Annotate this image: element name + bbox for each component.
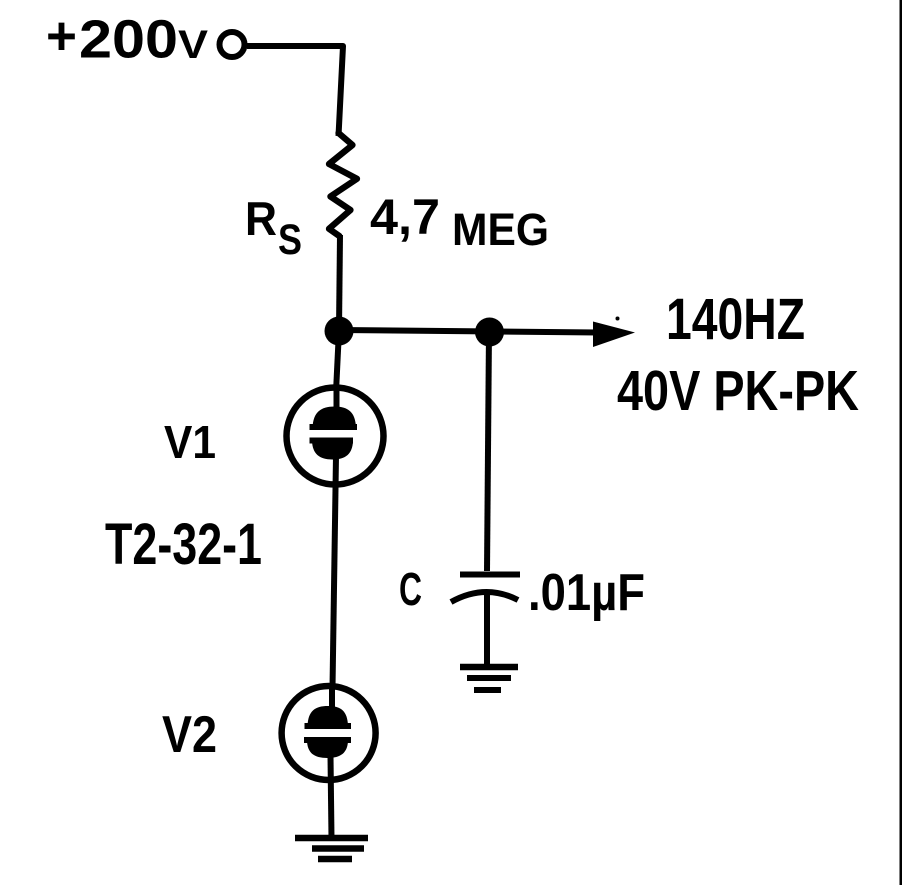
svg-text:40V PK-PK: 40V PK-PK: [617, 359, 859, 423]
svg-text:200: 200: [79, 10, 178, 70]
svg-text:MEG: MEG: [452, 204, 549, 255]
svg-text:4,7: 4,7: [370, 189, 440, 245]
svg-text:V2: V2: [162, 706, 217, 764]
svg-text:R: R: [245, 192, 277, 245]
svg-text:+: +: [46, 6, 77, 66]
svg-text:T2-32-1: T2-32-1: [105, 512, 262, 577]
svg-text:V: V: [178, 23, 208, 67]
svg-text:V1: V1: [164, 416, 216, 468]
svg-text:S: S: [278, 216, 302, 264]
svg-text:140HZ: 140HZ: [666, 287, 805, 352]
svg-text:.01µF: .01µF: [528, 564, 645, 622]
svg-text:C: C: [399, 563, 422, 615]
